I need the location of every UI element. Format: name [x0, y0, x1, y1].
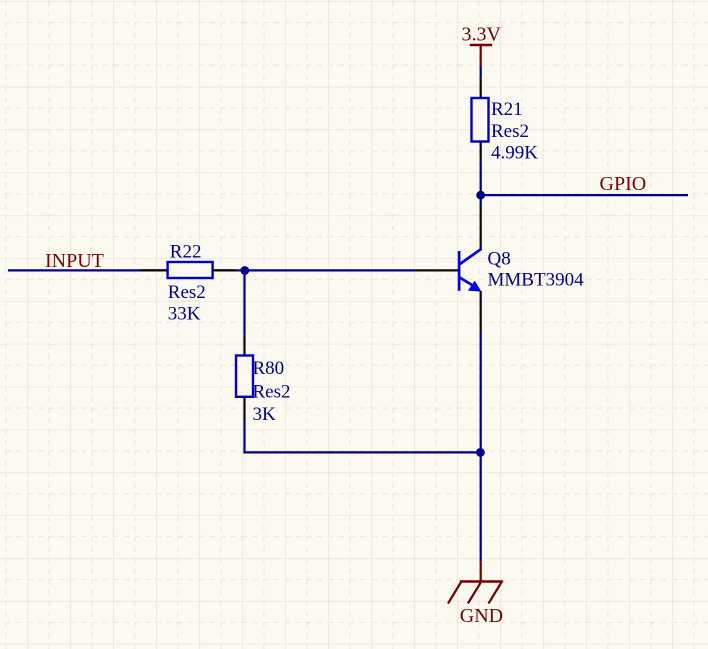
wire power to R21	[480, 67, 482, 79]
pin R80 top	[243, 335, 245, 355]
pin Q8 collector	[480, 206, 482, 250]
svg-text:R22: R22	[170, 241, 202, 262]
svg-text:33K: 33K	[168, 304, 201, 325]
pin R21 bottom	[480, 142, 482, 162]
wire node down to R80	[243, 271, 245, 336]
svg-text:GND: GND	[460, 605, 503, 627]
transistor Q8 collector stroke	[460, 249, 482, 264]
wire R80 down	[243, 421, 245, 452]
power port GND diagonal 3	[489, 583, 502, 604]
wire emitter down	[480, 332, 482, 561]
svg-text:Res2: Res2	[253, 382, 291, 403]
wire R21 to node	[480, 162, 482, 206]
transistor Q8 base bar	[458, 251, 461, 291]
svg-text:4.99K: 4.99K	[491, 142, 538, 163]
power port 3.3V bar	[470, 44, 492, 47]
wire GPIO	[481, 194, 688, 196]
power port GND stub	[480, 561, 482, 581]
resistor R21 body	[472, 98, 489, 142]
junction emitter node	[476, 448, 485, 457]
svg-text:Q8: Q8	[488, 248, 511, 269]
pin R22 right	[213, 269, 236, 271]
resistor R22 body	[168, 262, 213, 278]
svg-text:3.3V: 3.3V	[462, 24, 502, 46]
pin R21 top	[480, 78, 482, 98]
junction base node	[240, 266, 249, 275]
power port 3.3V stub	[480, 45, 482, 67]
svg-text:INPUT: INPUT	[45, 250, 104, 272]
svg-text:R80: R80	[253, 358, 285, 379]
svg-text:Res2: Res2	[168, 282, 206, 303]
junction collector node	[476, 191, 485, 200]
wire bottom horizontal	[243, 451, 480, 453]
power port GND diagonal 1	[448, 583, 461, 604]
wire INPUT	[8, 269, 416, 271]
svg-text:GPIO: GPIO	[600, 173, 647, 195]
pin Q8 emitter	[480, 291, 482, 332]
power port GND diagonal 2	[468, 583, 481, 604]
svg-text:MMBT3904: MMBT3904	[488, 269, 585, 290]
svg-text:Res2: Res2	[491, 121, 529, 142]
svg-text:R21: R21	[491, 99, 523, 120]
power port GND bar	[460, 580, 503, 582]
pin R80 bottom	[243, 397, 245, 422]
transistor Q8 emitter arrow	[468, 281, 482, 292]
resistor R80 body	[236, 356, 253, 397]
svg-text:3K: 3K	[253, 404, 277, 425]
pin R22 left	[140, 269, 168, 271]
transistor Q8 emitter stroke	[460, 278, 476, 288]
pin Q8 base	[416, 269, 458, 271]
